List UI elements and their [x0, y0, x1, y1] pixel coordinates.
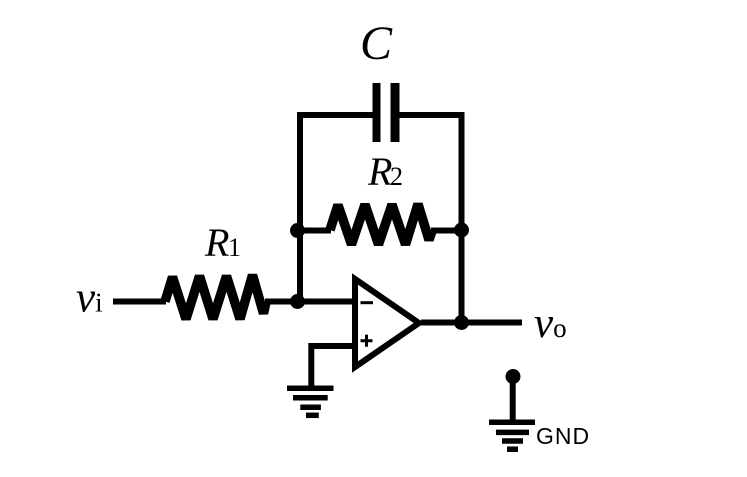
svg-text:vi: vi	[76, 275, 103, 322]
svg-text:R2: R2	[367, 149, 403, 194]
svg-text:C: C	[360, 17, 393, 70]
svg-text:R1: R1	[204, 220, 241, 265]
svg-text:vo: vo	[534, 300, 567, 347]
svg-text:GND: GND	[536, 423, 590, 449]
